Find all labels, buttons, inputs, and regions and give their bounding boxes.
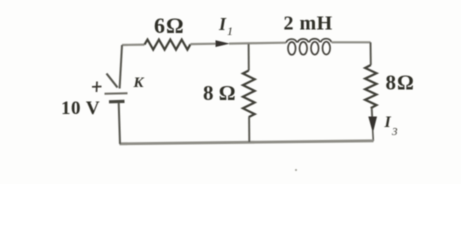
svg-text:8Ω: 8Ω xyxy=(386,71,415,95)
wire top-right segment xyxy=(332,41,371,43)
resistor R1 6Ω zigzag xyxy=(145,40,191,50)
svg-text:3: 3 xyxy=(391,126,398,138)
current arrow I1 xyxy=(216,40,231,47)
switch K blade xyxy=(107,74,118,88)
wire right vertical lower xyxy=(372,130,375,141)
svg-text:10 V: 10 V xyxy=(61,98,100,119)
svg-text:8 Ω: 8 Ω xyxy=(203,81,236,105)
wire mid-top segment xyxy=(229,42,286,45)
svg-text:I: I xyxy=(384,114,392,131)
left vertical wire upper xyxy=(120,45,122,89)
svg-text:6Ω: 6Ω xyxy=(154,13,185,38)
battery V1 long plate xyxy=(105,92,128,95)
stray scan dot xyxy=(295,169,297,171)
svg-text:2 mH: 2 mH xyxy=(284,13,333,35)
wire below R3 xyxy=(371,108,374,119)
resistor R3 8Ω right zigzag xyxy=(365,65,376,108)
inductor L1 2 mH xyxy=(286,39,332,55)
resistor R2 8Ω middle zigzag xyxy=(243,71,255,118)
svg-text:I: I xyxy=(218,14,227,34)
battery V1 short plate xyxy=(109,100,125,104)
svg-text:K: K xyxy=(133,75,145,91)
left vertical wire lower xyxy=(119,103,120,145)
wire right vertical upper xyxy=(370,42,372,65)
svg-text:1: 1 xyxy=(227,24,233,38)
wire after R1 xyxy=(190,43,217,46)
middle branch wire lower xyxy=(248,117,250,142)
middle branch wire upper xyxy=(248,44,250,71)
current arrow I3 xyxy=(368,117,377,134)
bottom wire xyxy=(120,141,374,144)
label + xyxy=(92,82,102,93)
wire top-left segment xyxy=(122,43,145,46)
